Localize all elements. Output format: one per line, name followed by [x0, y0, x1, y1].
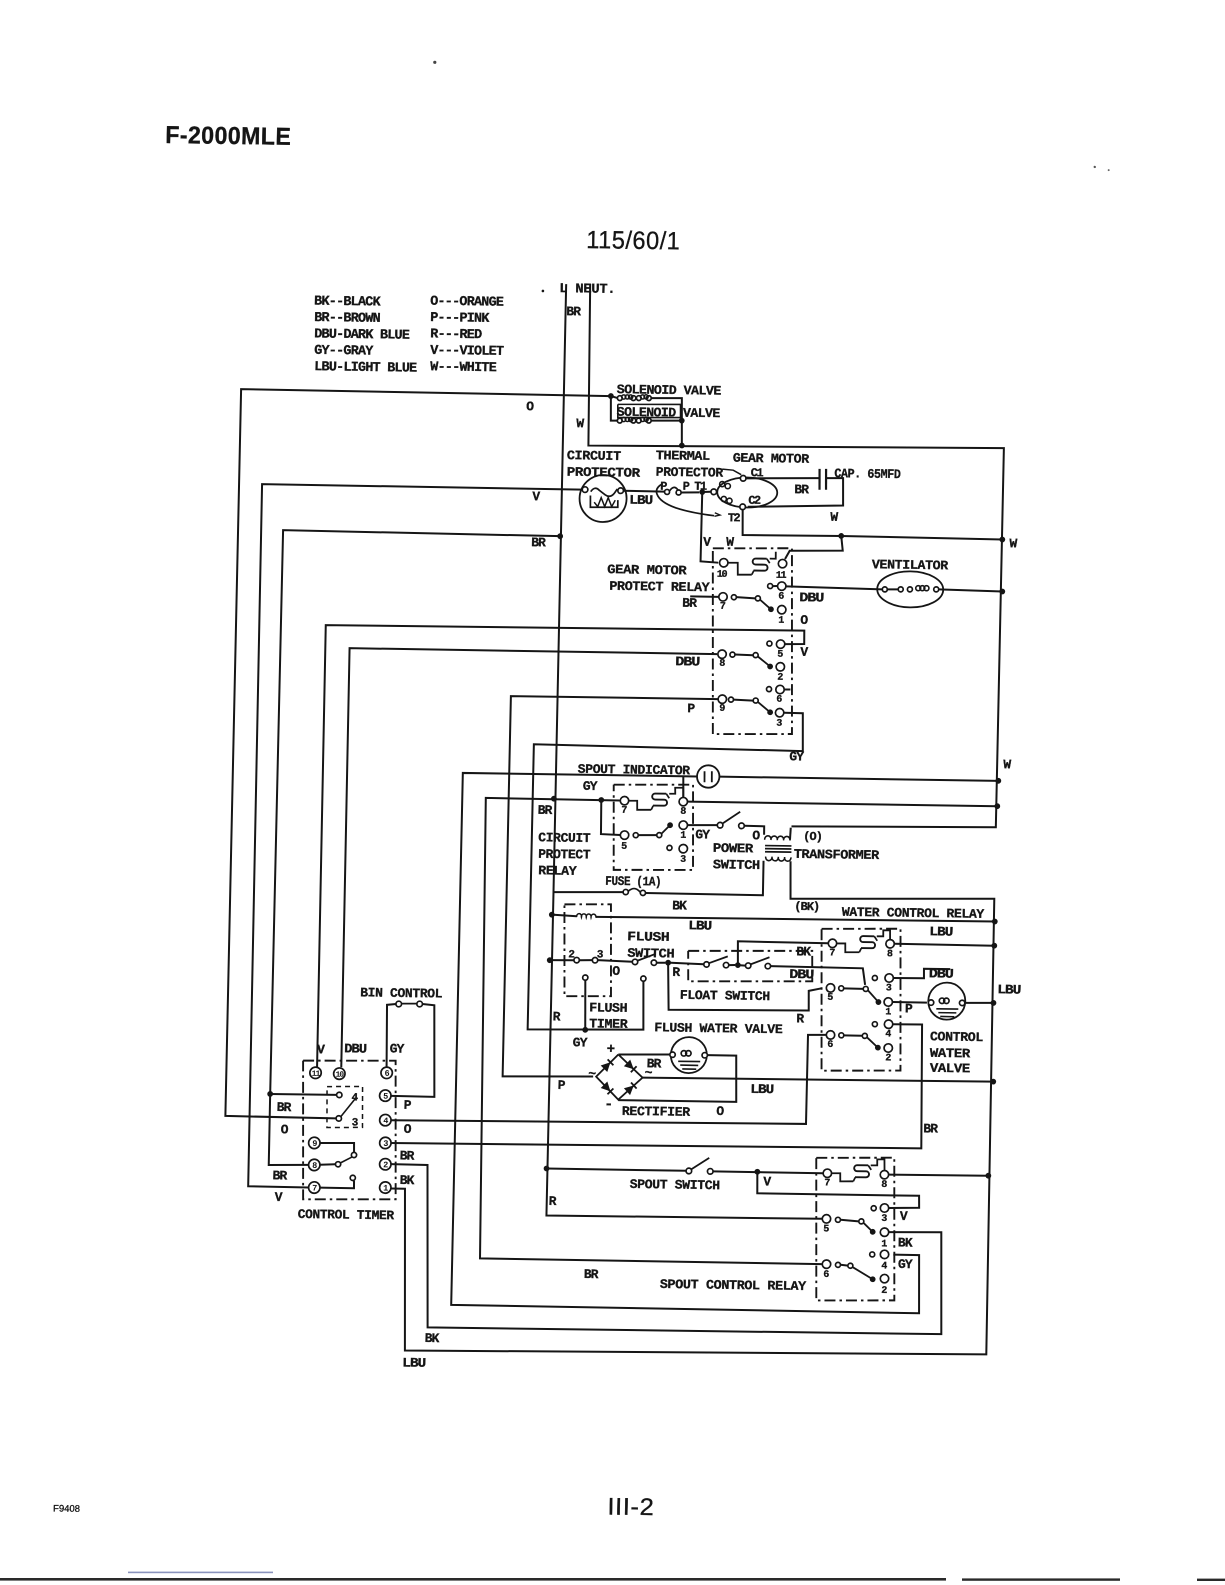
relay terminal 5: [767, 641, 772, 646]
svg-text:III-2: III-2: [607, 1493, 655, 1521]
wire transformer secondary right / (BK) line / lower right rail / LBU bottom line to control timer term 1: [388, 856, 997, 1359]
wcr terminal 1: [884, 998, 893, 1007]
wire transformer primary right lead: [789, 828, 792, 840]
ventilator body: [877, 571, 944, 608]
wire spout indicator to right rail: [719, 777, 998, 781]
wire wcr 8 to right rail: [895, 944, 995, 946]
svg-text:CIRCUIT: CIRCUIT: [567, 448, 622, 464]
wire ventilator to right rail: [939, 589, 1003, 591]
wire relay 6 to ventilator DBU: [773, 585, 778, 587]
wcr pivot row2: [862, 1033, 867, 1038]
svg-text:FLUSH: FLUSH: [589, 1000, 627, 1016]
gear motor windings: [720, 481, 725, 486]
svg-text:GY: GY: [898, 1257, 913, 1272]
ct 8 wire: [320, 1164, 335, 1165]
relay terminal 10: [719, 559, 728, 568]
wire transformer secondary left to fuse: [646, 859, 764, 895]
scr moving contact row1: [870, 1229, 876, 1235]
wire wcr 3 DBU: [894, 968, 950, 979]
wire BK net scr1 to CT 2: [388, 1164, 945, 1335]
ct switch contact 3: [336, 1116, 342, 1121]
ventilator lead circles: [882, 587, 887, 592]
transformer primary: [765, 836, 790, 841]
svg-text:BK: BK: [796, 944, 811, 959]
svg-text:(O): (O): [803, 830, 822, 844]
bin control contacts: [396, 1001, 402, 1007]
wire P net gear motor protect relay 9 to rectifier: [503, 696, 718, 1079]
svg-text:DBU: DBU: [799, 590, 823, 605]
junction valve rail: [990, 1000, 996, 1006]
wire control water valve to rail: [965, 1001, 994, 1004]
power switch contacts: [717, 822, 723, 828]
control timer box: [300, 1059, 399, 1200]
scr terminal 4: [870, 1252, 875, 1257]
wcr terminal 8: [886, 940, 895, 949]
wire R junction to float switch: [668, 963, 704, 965]
thermal protector bimetal arc: [656, 484, 715, 516]
scr arm row1: [840, 1220, 858, 1222]
wire spout switch line: [547, 1168, 687, 1170]
wire L to fuse: [553, 891, 623, 893]
control timer terminal 9: [309, 1137, 321, 1149]
svg-text:PROTECTOR: PROTECTOR: [656, 465, 724, 481]
svg-text:GY: GY: [789, 749, 804, 764]
wire solenoid valve 1 left lead: [611, 396, 617, 398]
wire BR riser to CPR 5: [601, 800, 621, 835]
svg-text:VALVE: VALVE: [930, 1061, 971, 1077]
junction scr8 rail: [985, 1173, 991, 1179]
svg-text:LBU: LBU: [629, 493, 652, 508]
wcr arm row1: [844, 987, 863, 989]
svg-text:BR: BR: [647, 1056, 662, 1071]
junction solenoid 2 right: [679, 418, 685, 424]
wire float mid: [729, 964, 735, 966]
svg-text:FLUSH WATER VALVE: FLUSH WATER VALVE: [654, 1020, 783, 1037]
svg-text:LBU: LBU: [750, 1082, 773, 1097]
svg-text:BR: BR: [923, 1121, 938, 1136]
svg-text:FLOAT SWITCH: FLOAT SWITCH: [680, 988, 770, 1004]
svg-text:BR: BR: [794, 482, 809, 497]
relay pivot row2: [753, 653, 758, 658]
control timer terminal 8: [308, 1159, 320, 1171]
svg-text:DBU: DBU: [929, 966, 953, 981]
relay terminal 3: [775, 708, 784, 717]
svg-text:LBU: LBU: [929, 924, 952, 939]
control timer terminal 6: [381, 1067, 393, 1079]
svg-text:GEAR MOTOR: GEAR MOTOR: [733, 451, 810, 467]
junction LBU right rail: [992, 919, 998, 925]
control water valve body: [928, 982, 966, 1020]
relay terminal 6b: [766, 687, 771, 692]
svg-text:PROTECT RELAY: PROTECT RELAY: [609, 579, 710, 595]
ct 9 wire: [320, 1142, 354, 1152]
wire cpr 1 to power switch: [688, 824, 717, 827]
scr terminal 5: [822, 1215, 831, 1224]
wire BR net from L rail / control timer term 8: [269, 530, 561, 1169]
gear motor body: [717, 477, 778, 508]
wire V net gear motor protect relay 5 to control timer term 11: [316, 624, 804, 1074]
wcr moving contact row2: [875, 1045, 881, 1051]
junction solenoid feed: [608, 393, 614, 399]
wcr terminal 4: [872, 1022, 877, 1027]
flush water valve core: [678, 1060, 700, 1062]
relay arm blade row3: [758, 702, 771, 712]
ct 9 contact circle: [351, 1152, 356, 1157]
svg-text:BR: BR: [400, 1148, 415, 1163]
wcr arm row2: [844, 1034, 862, 1036]
svg-text:BR: BR: [272, 1168, 287, 1183]
bottom page border line: [0, 1578, 946, 1581]
svg-text:LBU-LIGHT BLUE: LBU-LIGHT BLUE: [314, 360, 417, 376]
ct switch arm: [341, 1099, 355, 1117]
control timer terminal 1: [379, 1182, 391, 1194]
spout switch arm: [691, 1158, 709, 1170]
svg-text:BR: BR: [277, 1100, 292, 1115]
control timer terminal 2: [379, 1158, 391, 1170]
wire BR net CT3 to WCR 4: [391, 1017, 924, 1151]
svg-text:V---VIOLET: V---VIOLET: [430, 344, 504, 360]
svg-text:DBU: DBU: [344, 1041, 366, 1056]
svg-text:SPOUT CONTROL RELAY: SPOUT CONTROL RELAY: [660, 1277, 807, 1294]
svg-text:O---ORANGE: O---ORANGE: [430, 295, 504, 311]
svg-text:FLUSH: FLUSH: [627, 929, 669, 945]
scr arm blade row2: [852, 1267, 873, 1279]
svg-text:CIRCUIT: CIRCUIT: [538, 830, 591, 846]
relay moving contact row3: [767, 709, 773, 715]
svg-text:RELAY: RELAY: [538, 863, 577, 879]
svg-text:P---PINK: P---PINK: [430, 311, 490, 327]
wire GY net gear motor protect relay 3 / flush timer: [528, 709, 804, 1033]
wire ventilator internal: [887, 588, 898, 590]
control timer terminal 11: [310, 1067, 322, 1079]
junction solenoid branch on W rail: [679, 443, 685, 449]
junction flush switch R: [665, 960, 671, 966]
control timer terminal 4: [380, 1114, 392, 1126]
bin control closed arm: [402, 1002, 417, 1004]
svg-text:11: 11: [776, 571, 787, 582]
wire O net solenoid line / left outer vertical / control timer contact 3: [225, 389, 611, 1122]
scr terminal 8: [880, 1170, 889, 1179]
circuit protector heater element: [590, 496, 618, 508]
svg-text:BIN CONTROL: BIN CONTROL: [360, 985, 443, 1001]
wire V net to circuit protector / control timer term 7: [247, 484, 582, 1191]
svg-text:11: 11: [312, 1070, 321, 1079]
svg-text:DBU: DBU: [789, 967, 813, 982]
flush water valve coil: [681, 1051, 687, 1056]
wcr terminal 3: [872, 975, 877, 980]
wire R net flush to water control relay 5: [667, 963, 822, 1012]
spout switch contacts: [686, 1168, 692, 1174]
solenoid valve 1 coil: [617, 396, 622, 401]
svg-text:T2: T2: [728, 511, 741, 525]
svg-text:SOLENOID VALVE: SOLENOID VALVE: [617, 405, 721, 422]
junction W rail cap: [838, 533, 844, 539]
svg-text:BR: BR: [566, 304, 581, 319]
speck: [542, 290, 545, 293]
svg-text:F-2000MLE: F-2000MLE: [165, 122, 292, 151]
svg-text:LBU: LBU: [688, 918, 711, 933]
gear motor protect relay coil: [752, 558, 767, 570]
wire relay 6b stub: [784, 688, 790, 690]
svg-text:+: +: [607, 1042, 615, 1058]
relay moving contact row2: [767, 664, 773, 670]
cpr arm blade: [661, 825, 670, 834]
svg-text:BR: BR: [531, 535, 546, 550]
wire L supply line to spout control relay term 5: [546, 284, 842, 1219]
wire O rail CT4 to WCR 6: [391, 1029, 826, 1127]
ct 7 contact circle: [350, 1175, 355, 1180]
wire contact2 to contact3: [579, 959, 592, 961]
relay pivot row3: [753, 698, 758, 703]
scr moving contact row2: [870, 1276, 876, 1282]
wire L to coil: [552, 915, 577, 917]
svg-text:F9408: F9408: [53, 1503, 80, 1514]
wire BR into relay 7: [690, 595, 719, 598]
junction BR ct: [267, 1091, 273, 1097]
scr terminal 3: [871, 1206, 876, 1211]
wire scr 8 to rail: [889, 1174, 988, 1176]
leader line protector to C1: [722, 469, 741, 475]
svg-text:-: -: [604, 1096, 612, 1113]
wcr terminal 5: [826, 984, 835, 993]
control timer terminal 3: [380, 1137, 392, 1149]
cpr coil: [652, 794, 667, 806]
relay arm blade row2: [758, 656, 771, 666]
relay arm row1: [736, 597, 755, 598]
control water valve coil: [939, 998, 945, 1003]
thermal protector contact bump: [670, 487, 680, 491]
cpr arm row: [638, 834, 656, 836]
junction cpr8 rail: [994, 803, 1000, 809]
wire bin control left leg to CT 6: [386, 1004, 396, 1067]
scr terminal 1: [880, 1228, 889, 1237]
wcr arm blade row1: [868, 990, 879, 1002]
ventilator coil: [916, 586, 921, 591]
junction L line BR: [551, 796, 557, 802]
svg-text:THERMAL: THERMAL: [656, 448, 711, 464]
control timer terminal 7: [308, 1182, 320, 1194]
svg-text:L NEUT.: L NEUT.: [559, 282, 615, 298]
wire solenoid valve 2 right lead: [651, 419, 682, 422]
cpr terminal 8: [679, 797, 688, 806]
junction W rail right rail: [999, 537, 1005, 543]
junction BR on L line: [557, 533, 563, 539]
svg-text:BK: BK: [898, 1235, 913, 1250]
control timer inner switch box: [326, 1086, 363, 1128]
wire solenoid drop to solenoid 2: [610, 396, 617, 421]
float switch box: [688, 949, 813, 983]
control water valve core: [936, 1008, 958, 1010]
wire thermal protector to T1: [681, 491, 699, 494]
circuit protect relay box: [612, 784, 695, 871]
svg-text:SPOUT SWITCH: SPOUT SWITCH: [630, 1177, 720, 1193]
fuse 1A symbol: [623, 889, 628, 894]
wire capacitor to C2 loop: [748, 477, 844, 508]
scr terminal 7: [823, 1169, 832, 1178]
junction spout V: [754, 1169, 760, 1175]
wire cpr 8 lamp riser: [682, 776, 685, 797]
svg-text:RECTIFIER: RECTIFIER: [622, 1104, 691, 1120]
svg-text:R---RED: R---RED: [430, 327, 482, 343]
wire DBU net gear motor protect relay 8 to control timer term 10: [341, 648, 718, 1072]
svg-text:BK: BK: [672, 898, 687, 913]
svg-text:GY: GY: [583, 779, 598, 794]
relay contact 7: [719, 593, 728, 602]
wire float DBU out: [770, 966, 865, 985]
wire cpr 8 to right rail: [688, 802, 997, 807]
flush timer contact 3: [592, 957, 598, 962]
cpr pivot: [657, 833, 662, 838]
transformer secondary: [766, 857, 791, 862]
wire BR net circuit protect relay 7 / spout control relay term 6: [476, 798, 832, 1264]
svg-text:TRANSFORMER: TRANSFORMER: [794, 847, 880, 863]
svg-text:SWITCH: SWITCH: [713, 857, 760, 873]
svg-text:VENTILATOR: VENTILATOR: [872, 557, 949, 573]
wire float BK riser to WCR 7: [737, 941, 828, 966]
wcr arm blade row2: [867, 1037, 878, 1047]
flush switch contacts: [632, 959, 638, 964]
solenoid valve 2 label box: [618, 403, 681, 418]
power switch arm: [723, 812, 741, 824]
flush timer motor lead circles: [583, 975, 588, 980]
wire power switch to transformer: [744, 826, 764, 835]
solenoid valve 2 coil: [617, 418, 622, 423]
svg-text:GY: GY: [390, 1041, 405, 1056]
scr arm row2: [840, 1264, 848, 1267]
svg-text:2: 2: [568, 949, 574, 961]
control timer terminal 5: [379, 1090, 391, 1102]
speck top: [433, 61, 436, 64]
relay contact 8: [718, 650, 727, 659]
flush timer coil: [577, 914, 596, 918]
junction L coil tee: [549, 912, 555, 918]
wire GY net spout indicator / spout control relay term 4: [451, 773, 930, 1313]
wire flush timer motor lead: [584, 980, 586, 1030]
transformer core: [765, 845, 791, 847]
wire T1 to gear motor: [702, 491, 711, 494]
capacitor CAP 65MFD plates: [818, 469, 821, 490]
wire flush switch to R junction: [657, 962, 666, 964]
scr terminal 2: [880, 1274, 889, 1283]
wire V drop T1 to relay 10: [701, 492, 720, 563]
float switch contacts a: [704, 962, 710, 967]
wire C2 down to W rail: [742, 510, 1003, 540]
svg-text:CONTROL: CONTROL: [930, 1029, 984, 1045]
relay pivot row1: [755, 596, 760, 601]
cpr terminal 1: [679, 821, 688, 830]
wire coil LBU line to water control relay: [596, 916, 995, 923]
thermal protector terminals: [664, 489, 669, 494]
svg-text:DBU: DBU: [675, 654, 699, 669]
svg-text:CONTROL TIMER: CONTROL TIMER: [298, 1207, 395, 1223]
wire circuit protector to thermal protector: [623, 490, 664, 493]
svg-text:FUSE (1A): FUSE (1A): [605, 874, 661, 890]
relay terminal 6: [768, 584, 773, 589]
junction float BK: [735, 962, 741, 968]
control timer terminal 10: [334, 1068, 346, 1080]
svg-text:(BK): (BK): [794, 900, 819, 914]
float switch contacts b: [745, 963, 751, 968]
junction flush timer GY: [582, 1027, 588, 1033]
control water valve leads: [928, 1000, 934, 1005]
svg-text:GY--GRAY: GY--GRAY: [314, 344, 374, 360]
relay arm blade row1: [760, 600, 771, 610]
svg-text:10: 10: [717, 570, 728, 581]
flush switch arm: [637, 954, 655, 961]
junction R net rail: [990, 1079, 996, 1085]
svg-text:WATER: WATER: [930, 1046, 971, 1062]
svg-text:PROTECTOR: PROTECTOR: [567, 465, 641, 481]
relay arm row2: [735, 654, 753, 657]
faint blue scan line: [128, 1572, 273, 1574]
cpr terminal 7: [620, 796, 629, 805]
circuit protector terminals: [582, 487, 588, 493]
relay terminal 1: [777, 605, 786, 614]
junction BR riser: [598, 797, 604, 803]
svg-text:LBU: LBU: [997, 982, 1020, 997]
wire L to flush timer contact 2: [550, 959, 574, 962]
wire wcr 1 to control water valve: [893, 1001, 927, 1004]
rectifier bridge: [596, 1054, 643, 1100]
wire float junction to b: [738, 964, 746, 967]
wcr terminal 2: [884, 1044, 893, 1053]
ct 8 contact circle: [335, 1162, 340, 1167]
ct 7 wire: [320, 1180, 354, 1188]
ct switch contact 4: [337, 1092, 343, 1097]
scr arm blade row1: [863, 1223, 873, 1232]
wire C1 to capacitor: [746, 477, 820, 479]
junction L contact tee: [547, 957, 553, 963]
junction L spout switch: [544, 1166, 550, 1172]
svg-text:BR: BR: [538, 803, 553, 818]
scr pivot row2: [848, 1263, 853, 1268]
relay arm row3: [733, 699, 753, 702]
cpr terminal 5: [620, 831, 629, 840]
svg-text:BR: BR: [584, 1267, 599, 1282]
svg-text:BR--BROWN: BR--BROWN: [314, 311, 381, 327]
wire DBU to ventilator: [786, 586, 882, 589]
wire flush water valve loop: [618, 1054, 737, 1102]
relay terminal 2: [776, 663, 785, 672]
float switch arm b: [751, 957, 770, 965]
scr terminal 6: [822, 1260, 831, 1269]
svg-text:POWER: POWER: [713, 841, 754, 857]
svg-text:PROTECT: PROTECT: [538, 847, 591, 863]
spout control relay box: [813, 1157, 897, 1302]
wire BR branch to control timer contact 4: [270, 1093, 336, 1096]
wire W rail tee to relay 11: [785, 535, 843, 560]
svg-text:GY: GY: [695, 827, 710, 842]
wire rectifier R out to rail: [643, 1077, 994, 1083]
cpr moving contact: [667, 822, 673, 828]
wire NEUT supply / top W rail / right rail to transformer primary: [579, 284, 1008, 829]
water control relay box: [819, 928, 904, 1072]
wcr pivot row1: [863, 986, 868, 991]
wcr coil: [860, 936, 875, 948]
wire spout switch to relay 7: [713, 1171, 823, 1173]
svg-text:DBU-DARK BLUE: DBU-DARK BLUE: [314, 327, 410, 343]
svg-text:GY: GY: [573, 1035, 588, 1050]
ct 8 arm: [341, 1157, 353, 1163]
wcr terminal 6: [826, 1031, 835, 1040]
svg-text:BK: BK: [399, 1173, 414, 1188]
svg-text:LBU: LBU: [402, 1355, 425, 1370]
gear motor lead circles: [711, 489, 717, 495]
cpr terminal 3: [667, 845, 672, 850]
junction wcr8 rail: [991, 943, 997, 949]
svg-text:115/60/1: 115/60/1: [586, 226, 681, 255]
svg-text:TIMER: TIMER: [589, 1016, 628, 1032]
